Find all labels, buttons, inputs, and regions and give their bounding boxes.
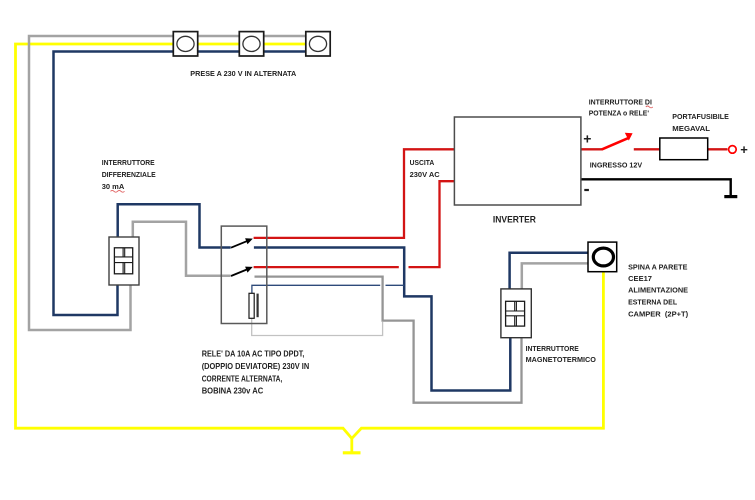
svg-text:INGRESSO 12V: INGRESSO 12V xyxy=(590,161,643,170)
svg-text:+: + xyxy=(740,142,748,157)
svg-text:PORTAFUSIBILE: PORTAFUSIBILE xyxy=(672,112,729,121)
svg-text:POTENZA o RELE': POTENZA o RELE' xyxy=(589,108,649,117)
svg-text:INTERRUTTORE DI: INTERRUTTORE DI xyxy=(589,97,652,106)
svg-text:MAGNETOTERMICO: MAGNETOTERMICO xyxy=(526,355,596,364)
svg-text:CORRENTE ALTERNATA,: CORRENTE ALTERNATA, xyxy=(202,374,283,384)
svg-text:BOBINA 230v AC: BOBINA 230v AC xyxy=(202,385,264,395)
svg-text:CEE17: CEE17 xyxy=(628,274,652,283)
svg-text:INVERTER: INVERTER xyxy=(493,215,536,225)
svg-text:(DOPPIO DEVIATORE) 230V IN: (DOPPIO DEVIATORE) 230V IN xyxy=(202,361,310,371)
svg-text:DIFFERENZIALE: DIFFERENZIALE xyxy=(102,170,156,179)
svg-text:30 mA: 30 mA xyxy=(102,182,125,191)
svg-text:MEGAVAL: MEGAVAL xyxy=(672,124,710,133)
svg-text:230V AC: 230V AC xyxy=(410,170,441,179)
svg-text:+: + xyxy=(583,130,591,146)
svg-text:ALIMENTAZIONE: ALIMENTAZIONE xyxy=(628,286,688,295)
svg-text:CAMPER (2P+T): CAMPER (2P+T) xyxy=(628,310,688,319)
svg-text:USCITA: USCITA xyxy=(410,158,435,167)
svg-text:PRESE A 230 V IN ALTERNATA: PRESE A 230 V IN ALTERNATA xyxy=(190,69,296,78)
svg-text:RELE' DA 10A AC TIPO DPDT,: RELE' DA 10A AC TIPO DPDT, xyxy=(202,349,305,359)
svg-text:ESTERNA DEL: ESTERNA DEL xyxy=(628,297,677,306)
svg-text:SPINA A PARETE: SPINA A PARETE xyxy=(628,263,687,272)
svg-text:INTERRUTTORE: INTERRUTTORE xyxy=(526,344,579,353)
svg-text:INTERRUTTORE: INTERRUTTORE xyxy=(102,158,155,167)
